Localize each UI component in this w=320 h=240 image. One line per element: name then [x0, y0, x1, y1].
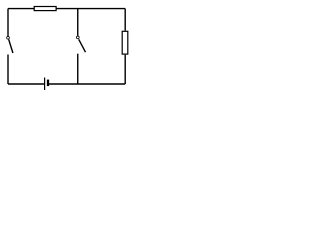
wire top: node A (top-left) to node B (top-right) [8, 8, 125, 10]
wire left upper: top-left corner down to switch S1 [7, 9, 9, 37]
resistor R1 (top, horizontal box) [34, 7, 56, 11]
wire right upper: top-right corner down to resistor R2 [124, 9, 126, 31]
wire right lower: resistor R2 to bottom-right corner [124, 55, 126, 84]
wire bottom right: battery to bottom-right corner [48, 83, 125, 85]
switch S1 pivot circle [7, 36, 10, 39]
wire left lower: switch S1 to bottom-left corner [7, 55, 9, 85]
wire bottom left: bottom-left corner to battery [8, 83, 45, 85]
resistor R2 (right, vertical box) [122, 31, 128, 54]
switch S2 blade (open) [79, 39, 86, 52]
battery B1 long plate (positive) [44, 78, 46, 91]
battery B1 short thick plate (negative) [47, 80, 49, 87]
switch S2 pivot circle [76, 36, 79, 39]
wire middle lower: switch S2 to bottom junction [77, 54, 79, 84]
wire middle upper: top junction down to switch S2 [77, 9, 79, 36]
switch S1 blade (open) [9, 39, 13, 53]
